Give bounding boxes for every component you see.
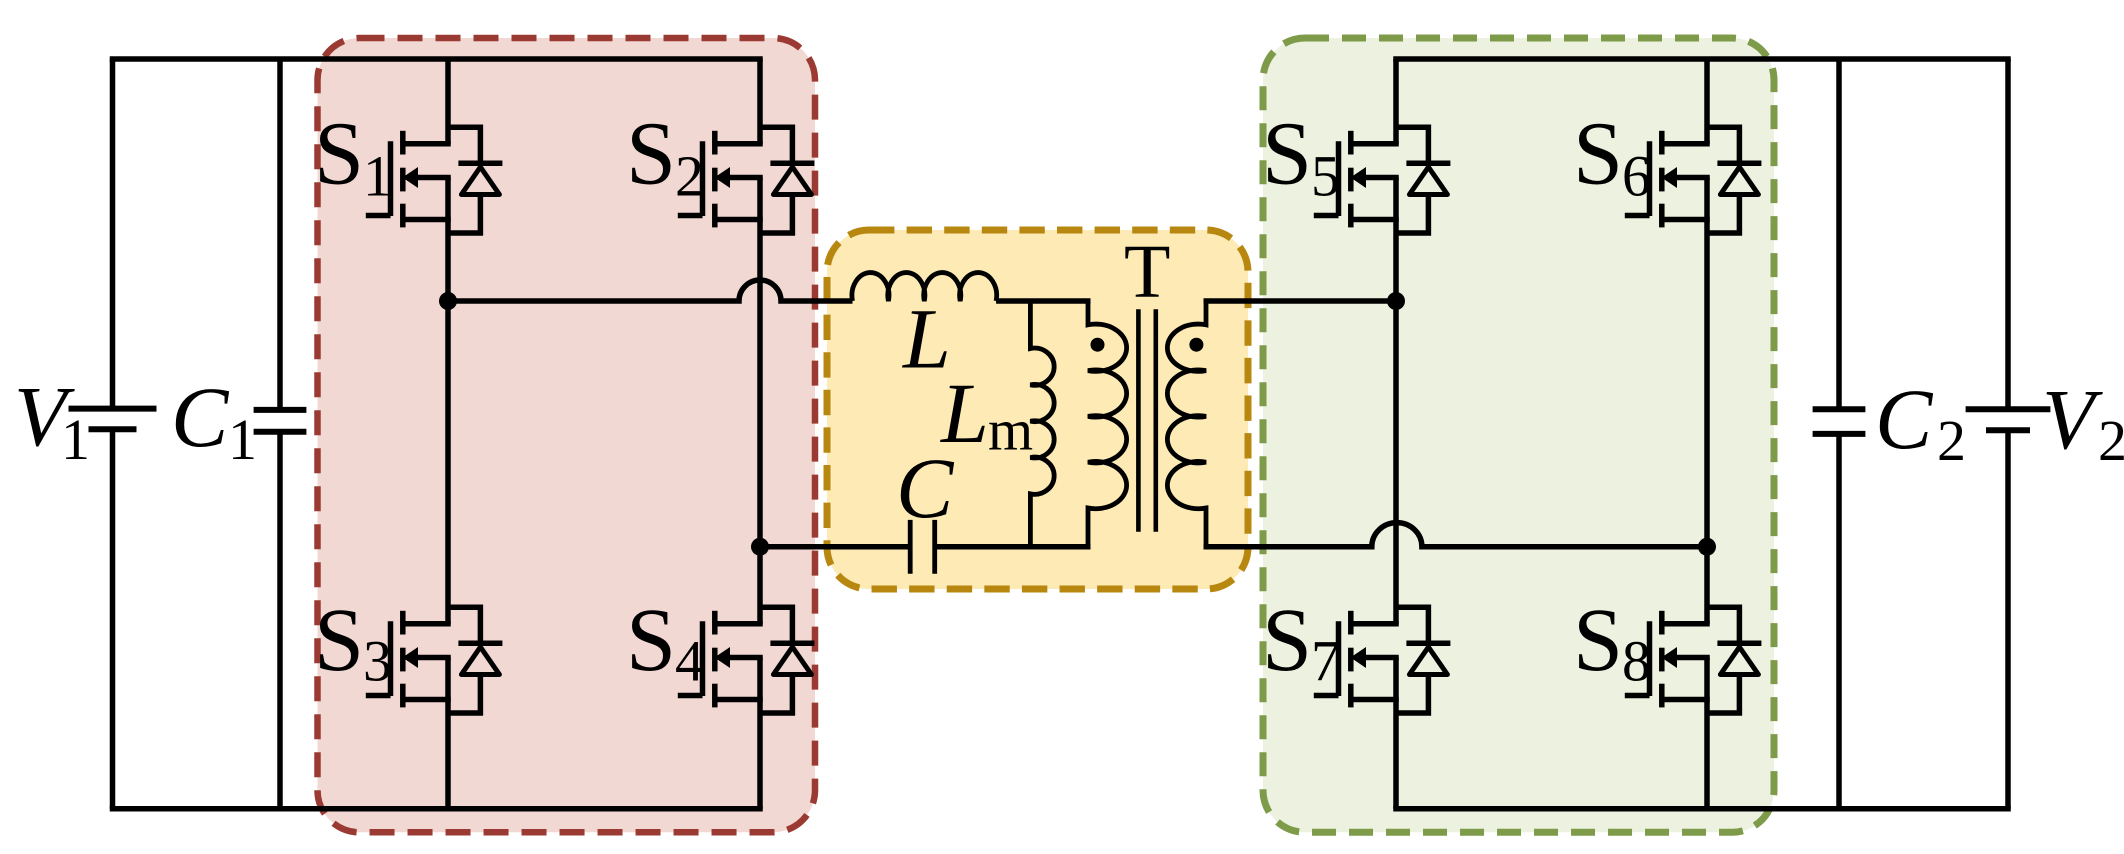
wire L to transformer primary (996, 298, 1090, 304)
svg-text:4: 4 (675, 629, 704, 694)
capacitor C symbol (908, 520, 913, 574)
wire bridge leg S2/S4 upper (757, 59, 763, 144)
wire bridge leg S5/S7 upper (1393, 59, 1399, 144)
svg-text:C: C (1875, 371, 1934, 467)
wire bridge B output (node B to capacitor C) (760, 544, 910, 550)
transistor S7 (MOSFET with body diode) (1314, 607, 1451, 713)
svg-text:L: L (939, 365, 989, 461)
wire bridge leg S6/S8 lower (1704, 658, 1710, 809)
transformer T primary winding (1088, 301, 1127, 547)
wire V1 branch lower (110, 429, 116, 809)
svg-text:m: m (988, 398, 1033, 463)
secondary full-bridge region (green dashed box) (1263, 38, 1774, 832)
svg-text:T: T (1124, 230, 1170, 314)
svg-text:2: 2 (675, 144, 704, 209)
transistor S2 (MOSFET with body diode) (678, 127, 815, 233)
svg-text:S: S (626, 591, 676, 690)
wire bridge leg S1/S3 upper (445, 59, 451, 144)
wire C1 branch lower (277, 432, 283, 809)
svg-text:V: V (2042, 371, 2103, 467)
transistor S3 (MOSFET with body diode) (366, 607, 503, 713)
svg-text:8: 8 (1622, 629, 1651, 694)
transformer primary polarity dot (1091, 338, 1105, 352)
wire bridge leg S6/S8 upper (1704, 59, 1710, 144)
svg-text:S: S (626, 105, 676, 204)
transistor S4 (MOSFET with body diode) (678, 607, 815, 713)
svg-text:S: S (314, 591, 364, 690)
svg-text:S: S (1262, 105, 1312, 204)
svg-text:1: 1 (228, 407, 257, 472)
wire C2 branch lower (1836, 434, 1842, 809)
wire bridge leg S5/S7 middle (1393, 178, 1399, 624)
wire bridge leg S1/S3 middle (445, 178, 451, 624)
wire bottom-left rail (110, 806, 763, 812)
svg-text:2: 2 (2098, 408, 2124, 473)
wire C2 branch upper (1836, 59, 1842, 409)
svg-text:7: 7 (1311, 629, 1340, 694)
svg-text:1: 1 (363, 144, 392, 209)
transistor S8 (MOSFET with body diode) (1625, 607, 1762, 713)
svg-text:3: 3 (363, 629, 392, 694)
primary full-bridge region (pink dashed box) (318, 38, 816, 832)
resonant tank region (yellow dashed box) (827, 230, 1248, 589)
svg-text:6: 6 (1622, 144, 1651, 209)
svg-text:1: 1 (61, 407, 90, 472)
node D junction dot (1698, 538, 1716, 556)
node C junction dot (1387, 292, 1405, 310)
svg-text:5: 5 (1311, 144, 1340, 209)
wire V2 branch upper (2005, 59, 2011, 409)
inductor L (852, 273, 997, 301)
wire top-right rail (1393, 56, 2011, 62)
wire bridge leg S1/S3 lower (445, 658, 451, 809)
wire C1 branch upper (277, 59, 283, 410)
transistor S6 (MOSFET with body diode) (1625, 127, 1762, 233)
inductor Lm (magnetizing) (1030, 301, 1054, 547)
wire bridge leg S6/S8 middle (1704, 178, 1710, 624)
capacitor C1 symbol (254, 407, 307, 413)
transistor S1 (MOSFET with body diode) (366, 127, 503, 233)
node B junction dot (751, 538, 769, 556)
svg-text:S: S (1262, 591, 1312, 690)
wire transformer secondary bottom to node D (with hop) (1204, 523, 1708, 547)
transistor S5 (MOSFET with body diode) (1314, 127, 1451, 233)
svg-text:S: S (1573, 105, 1623, 204)
wire transformer secondary top to node C (1204, 298, 1397, 304)
wire V2 branch lower (2005, 430, 2011, 809)
wire bridge A output (node A to tank) (448, 280, 853, 301)
wire bridge leg S2/S4 middle (757, 178, 763, 624)
transformer secondary polarity dot (1189, 338, 1203, 352)
wire top-left rail (110, 56, 763, 62)
svg-text:S: S (1573, 591, 1623, 690)
svg-text:S: S (314, 105, 364, 204)
node A junction dot (439, 292, 457, 310)
svg-text:C: C (171, 369, 230, 465)
svg-text:2: 2 (1937, 408, 1966, 473)
wire bridge leg S2/S4 lower (757, 658, 763, 809)
voltage source V2 symbol (1966, 406, 2051, 412)
capacitor C2 symbol (1813, 406, 1866, 412)
transformer T secondary winding (1167, 301, 1206, 547)
wire V1 branch upper (110, 59, 116, 409)
wire bridge leg S5/S7 lower (1393, 658, 1399, 809)
transformer T core (1136, 309, 1141, 531)
wire bottom-right rail (1393, 806, 2011, 812)
voltage source V1 symbol (69, 406, 157, 412)
wire capacitor C to transformer primary (935, 544, 1091, 550)
